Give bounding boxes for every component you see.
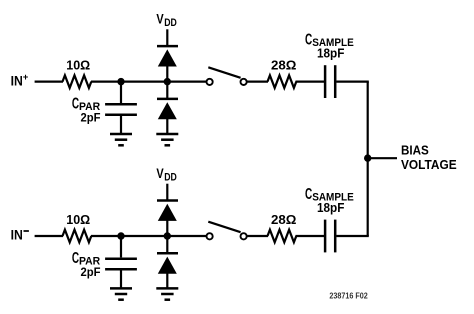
node: C_PAR junction (bottom row) <box>117 232 124 239</box>
svg-text:VOLTAGE: VOLTAGE <box>401 157 457 172</box>
switch (top row) <box>207 67 247 85</box>
diode to VDD, cathode up (top row) <box>157 46 178 82</box>
wire: switch to 28ohm resistor (top row) <box>247 80 268 82</box>
capacitor C_SAMPLE 18pF (top row) <box>305 31 354 98</box>
capacitor C_PAR 2pF (top row) <box>72 82 137 134</box>
ground (clamp diode, bottom row) <box>156 288 178 299</box>
svg-text:IN: IN <box>11 227 23 243</box>
wire: 28ohm resistor to C_SAMPLE (top row) <box>296 80 325 82</box>
wire: bias stub <box>368 157 397 159</box>
resistor 28Ω (bottom row) <box>268 212 297 242</box>
svg-text:DD: DD <box>164 17 177 29</box>
switch (bottom row) <box>207 222 247 240</box>
svg-text:28Ω: 28Ω <box>271 212 297 227</box>
ground (clamp diode, top row) <box>156 134 178 145</box>
power VDD (top row) <box>156 11 176 46</box>
wire: resistor to switch through junctions (bottom row) <box>91 235 207 237</box>
wire: switch to 28ohm resistor (bottom row) <box>247 235 268 237</box>
input label IN− (bottom row) <box>11 227 29 243</box>
wire: C_SAMPLE to bias rail (top row) <box>336 80 368 82</box>
svg-text:DD: DD <box>164 172 177 184</box>
wire: IN− to 10ohm resistor <box>35 235 63 237</box>
svg-text:V: V <box>156 165 164 181</box>
wire: 28ohm resistor to C_SAMPLE (bottom row) <box>296 235 325 237</box>
node: clamp-diode junction (top row) <box>164 78 171 85</box>
wire: IN+ to 10ohm resistor <box>35 80 63 82</box>
node: C_PAR junction (top row) <box>117 78 124 85</box>
node: bias voltage junction <box>364 154 371 161</box>
power VDD (bottom row) <box>156 165 176 200</box>
svg-text:18pF: 18pF <box>317 200 345 215</box>
label BIAS VOLTAGE <box>401 142 457 171</box>
diode to VDD, cathode up (bottom row) <box>157 201 178 237</box>
resistor 28Ω (top row) <box>268 58 297 88</box>
svg-text:V: V <box>156 11 164 27</box>
resistor 10Ω (top row) <box>63 58 92 88</box>
diode from ground, cathode up (bottom row) <box>157 236 178 288</box>
svg-text:2pF: 2pF <box>81 111 101 125</box>
ground (C_PAR, top row) <box>110 134 132 145</box>
svg-text:+: + <box>23 72 29 83</box>
svg-text:10Ω: 10Ω <box>66 58 90 73</box>
svg-text:2pF: 2pF <box>81 265 101 279</box>
resistor 10Ω (bottom row) <box>63 212 92 242</box>
svg-text:10Ω: 10Ω <box>66 212 90 227</box>
svg-text:238716 F02: 238716 F02 <box>329 291 368 300</box>
node: clamp-diode junction (bottom row) <box>164 232 171 239</box>
wire: resistor to switch through junctions (top row) <box>91 80 207 82</box>
wire: C_SAMPLE to bias rail (bottom row) <box>336 235 368 237</box>
diode from ground, cathode up (top row) <box>157 82 178 134</box>
svg-text:IN: IN <box>11 72 23 88</box>
svg-text:18pF: 18pF <box>317 45 345 60</box>
svg-text:BIAS: BIAS <box>401 142 429 157</box>
wire: bias rail vertical <box>367 82 369 236</box>
svg-text:28Ω: 28Ω <box>271 58 297 73</box>
ground (C_PAR, bottom row) <box>110 288 132 299</box>
capacitor C_PAR 2pF (bottom row) <box>72 236 137 288</box>
capacitor C_SAMPLE 18pF (bottom row) <box>305 186 354 253</box>
input label IN+ (top row) <box>11 72 29 88</box>
